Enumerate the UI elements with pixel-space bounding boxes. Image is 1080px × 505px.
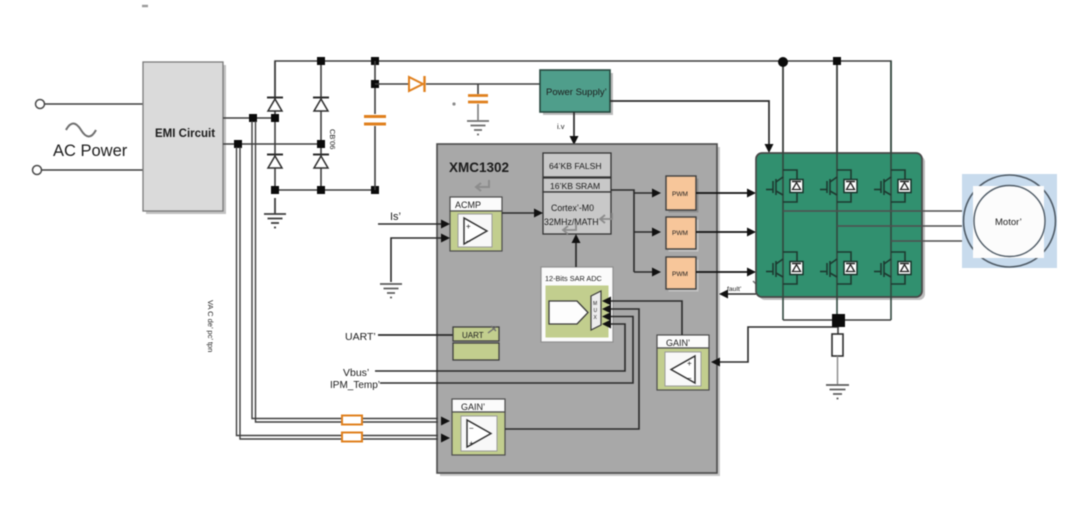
diode D9 xyxy=(783,252,803,284)
wire xyxy=(223,143,321,145)
arrowhead xyxy=(441,417,450,426)
filter component F2 xyxy=(342,433,362,442)
gain block feedback xyxy=(452,399,505,455)
arrowhead xyxy=(719,290,728,299)
wire bottom rail xyxy=(275,189,375,191)
transistor Q2 xyxy=(820,177,837,195)
pwm block 1 xyxy=(666,176,699,213)
wire phase A output xyxy=(783,210,964,212)
AC source symbol xyxy=(66,124,96,137)
transistor Q1 xyxy=(766,177,783,195)
wire xyxy=(426,83,540,85)
transistor Q5 xyxy=(820,259,837,277)
diode D4 xyxy=(313,155,329,169)
svg-text:+: + xyxy=(469,439,474,448)
wire xyxy=(42,169,144,171)
svg-text:16’KB SRAM: 16’KB SRAM xyxy=(550,181,600,191)
wire sense pair upper xyxy=(252,121,438,422)
capacitor C1 xyxy=(364,61,386,190)
wire mux in1 to gain top xyxy=(611,301,682,335)
junction xyxy=(371,80,379,88)
arrowhead xyxy=(711,358,720,367)
wire phase column B top xyxy=(836,61,838,153)
dash mark xyxy=(142,5,148,7)
svg-text:−: − xyxy=(687,374,692,383)
diode D2 xyxy=(267,155,283,169)
svg-text:PWM: PWM xyxy=(672,230,688,237)
arrowhead xyxy=(652,228,661,237)
uart block xyxy=(453,327,499,360)
arrowhead xyxy=(441,234,450,243)
wire xyxy=(378,223,443,225)
arrowhead mux in1 xyxy=(602,297,611,306)
XMC1302 MCU block xyxy=(437,144,720,476)
diode D11 xyxy=(891,252,911,284)
terminal T2 xyxy=(33,166,42,175)
transistor Q3 xyxy=(874,177,891,195)
transistor Q4 xyxy=(766,259,783,277)
svg-text:Power Supply’: Power Supply’ xyxy=(546,87,607,98)
svg-text:Cortex’-M0: Cortex’-M0 xyxy=(551,203,594,213)
arrowhead xyxy=(747,189,756,198)
svg-text:fault’: fault’ xyxy=(727,286,742,293)
return icon xyxy=(600,213,612,223)
flash memory block xyxy=(543,153,611,177)
junction xyxy=(271,186,279,194)
wire xyxy=(378,334,453,336)
wire sram to pwm trunk xyxy=(611,190,634,272)
diode D3 xyxy=(313,98,329,112)
arrowhead xyxy=(570,136,579,145)
arrowhead xyxy=(534,209,543,218)
junction xyxy=(271,114,279,122)
svg-text:12-Bits SAR ADC: 12-Bits SAR ADC xyxy=(545,274,602,283)
capacitor C2 xyxy=(468,84,488,120)
wire top rail xyxy=(275,61,891,155)
diode D1 xyxy=(267,98,283,112)
svg-text:Is’: Is’ xyxy=(390,211,401,223)
inverter bridge module xyxy=(759,156,925,300)
ground xyxy=(467,121,489,135)
wire phase column C xyxy=(890,61,892,320)
svg-text:U: U xyxy=(594,308,598,314)
arrowhead mux in3 xyxy=(602,312,611,321)
wire xyxy=(696,192,749,194)
pwm block 3 xyxy=(666,257,699,292)
svg-text:Motor’: Motor’ xyxy=(995,217,1022,228)
svg-text:UART: UART xyxy=(462,331,484,340)
junction xyxy=(317,57,325,65)
wire xyxy=(634,192,654,194)
svg-text:−: − xyxy=(466,237,471,246)
wire phase column A top xyxy=(782,61,784,153)
junction xyxy=(778,57,788,67)
wire collector bus xyxy=(783,319,891,321)
wire xyxy=(634,231,654,233)
arrowhead xyxy=(441,220,450,229)
junction xyxy=(249,114,257,122)
pwm block 2 xyxy=(666,217,699,252)
wire xyxy=(696,271,749,273)
svg-text:32MHz/MATH: 32MHz/MATH xyxy=(544,217,599,227)
wire sense pair lower xyxy=(237,147,439,439)
svg-text:PWM: PWM xyxy=(672,271,688,278)
diode D8 xyxy=(891,170,911,202)
wire ipm to mux xyxy=(380,317,633,384)
wire shunt sense to gain xyxy=(718,322,838,362)
arrowhead xyxy=(747,268,756,277)
diode D6 xyxy=(783,170,803,202)
wire xyxy=(610,101,769,145)
svg-text:XMC1302: XMC1302 xyxy=(449,160,509,175)
wire xyxy=(696,231,749,233)
filter component F1 xyxy=(342,416,362,425)
svg-text:VA C de’ pc’ tpn: VA C de’ pc’ tpn xyxy=(206,300,215,352)
junction xyxy=(317,140,325,148)
return icon xyxy=(563,224,576,234)
wire adc to cpu xyxy=(575,240,577,267)
arrowhead mux in2 xyxy=(602,305,611,314)
svg-text:GAIN’: GAIN’ xyxy=(666,338,690,348)
return icon xyxy=(753,281,758,286)
junction xyxy=(832,314,845,327)
svg-text:CB’06: CB’06 xyxy=(328,129,337,149)
arrowhead mux in4 xyxy=(602,320,611,329)
arrowhead xyxy=(652,268,661,277)
adc block xyxy=(541,267,613,342)
return icon xyxy=(488,326,496,333)
svg-text:M: M xyxy=(593,301,597,307)
wire xyxy=(502,212,536,214)
motor xyxy=(962,174,1057,268)
svg-text:GAIN’: GAIN’ xyxy=(461,402,485,412)
svg-text:+: + xyxy=(687,359,692,368)
svg-text:ACMP: ACMP xyxy=(455,200,481,210)
svg-text:UART’: UART’ xyxy=(345,331,376,343)
svg-text:64’KB FALSH: 64’KB FALSH xyxy=(549,161,602,171)
svg-text:i.v: i.v xyxy=(557,122,565,131)
arrowhead xyxy=(441,434,450,443)
junction xyxy=(371,57,379,65)
arrowhead xyxy=(572,234,581,243)
return icon xyxy=(476,180,489,191)
cpu block xyxy=(543,192,611,234)
svg-text:IPM_Temp’: IPM_Temp’ xyxy=(330,380,380,391)
wire xyxy=(391,238,443,282)
junction xyxy=(234,140,242,148)
wire xyxy=(375,83,409,85)
wire xyxy=(634,271,654,273)
wire xyxy=(223,117,275,119)
wire phase column A xyxy=(782,61,784,320)
svg-text:Vbus’: Vbus’ xyxy=(343,367,369,379)
fault wire xyxy=(726,293,756,295)
gain block current sense xyxy=(657,335,709,390)
svg-text:PWM: PWM xyxy=(672,191,688,198)
diode D7 xyxy=(837,170,857,202)
svg-text:AC Power: AC Power xyxy=(53,142,128,160)
wire phase column B xyxy=(836,61,838,320)
junction xyxy=(371,186,379,194)
wire left diode column xyxy=(274,61,276,190)
junction xyxy=(317,186,325,194)
wire xyxy=(573,112,575,138)
diode D5 xyxy=(409,76,425,92)
wire gain out to mux xyxy=(505,309,639,429)
wire right diode column xyxy=(320,61,322,190)
arrowhead xyxy=(747,228,756,237)
sram block xyxy=(543,178,611,192)
junction xyxy=(833,57,841,65)
EMI filter block xyxy=(143,62,226,214)
diode D10 xyxy=(837,252,857,284)
arrowhead xyxy=(765,144,774,153)
arrowhead xyxy=(652,189,661,198)
wire phase B output xyxy=(837,225,964,227)
power supply U2 xyxy=(540,70,613,115)
svg-text:+: + xyxy=(466,222,471,231)
ground xyxy=(380,284,402,298)
ground xyxy=(826,385,849,399)
svg-text:EMI Circuit: EMI Circuit xyxy=(155,128,215,140)
ground xyxy=(264,198,286,228)
wire xyxy=(45,103,144,105)
wire phase C output xyxy=(891,240,964,242)
terminal T1 xyxy=(36,100,45,109)
ACMP block xyxy=(450,197,502,251)
wire vbus to mux xyxy=(375,324,625,371)
dot mark xyxy=(452,102,455,105)
transistor Q6 xyxy=(874,259,891,277)
svg-text:−: − xyxy=(469,424,474,433)
resistor R1 shunt xyxy=(832,327,843,384)
